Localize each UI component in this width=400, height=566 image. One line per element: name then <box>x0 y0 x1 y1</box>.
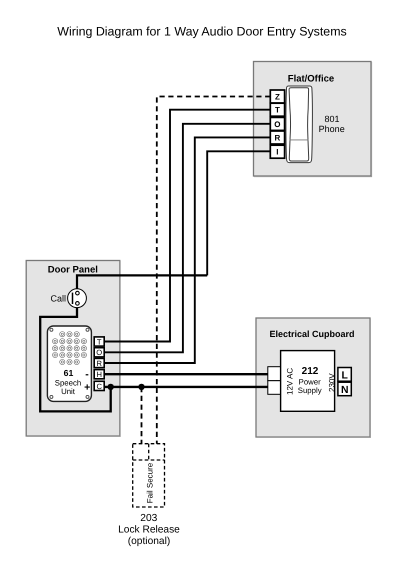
terminal T (door) <box>94 337 104 347</box>
svg-text:O: O <box>274 120 280 129</box>
wire H (door H to power supply) <box>104 373 268 375</box>
screw bottom-right <box>86 395 89 398</box>
svg-text:O: O <box>96 348 102 357</box>
screw top-right <box>86 328 89 331</box>
terminal N <box>338 382 351 396</box>
svg-text:T: T <box>275 106 280 115</box>
power supply input terminal 1 <box>268 367 281 381</box>
svg-text:H: H <box>96 370 101 379</box>
terminal T (flat) <box>270 103 284 116</box>
svg-text:T: T <box>97 337 102 346</box>
wire call button top (to wire I) <box>77 275 207 289</box>
Door Panel enclosure <box>26 261 120 437</box>
wire I (flat I terminal down to call button feed) <box>207 151 270 275</box>
phone 801 handset <box>286 86 313 163</box>
svg-text:Flat/Office: Flat/Office <box>288 74 334 85</box>
wire R (flat R to door R) <box>104 137 270 363</box>
wire call button bottom (to junction on wire C) <box>40 307 111 411</box>
svg-text:Supply: Supply <box>298 386 322 395</box>
terminal C (door) <box>94 381 104 391</box>
svg-text:Z: Z <box>275 93 280 102</box>
label 203 Lock Release (optional) <box>118 513 180 547</box>
terminal O (door) <box>94 348 104 358</box>
junction lock/C <box>138 384 144 390</box>
terminal Z <box>270 90 284 103</box>
label 61 Speech Unit <box>55 368 81 396</box>
svg-text:212: 212 <box>302 366 319 377</box>
svg-text:Wiring Diagram for 1 Way Audio: Wiring Diagram for 1 Way Audio Door Entr… <box>57 25 346 39</box>
svg-text:Door Panel: Door Panel <box>48 265 98 276</box>
svg-text:Unit: Unit <box>61 387 76 396</box>
svg-text:203: 203 <box>140 513 157 524</box>
svg-text:Phone: Phone <box>319 124 345 134</box>
power supply input terminal 2 <box>268 381 281 395</box>
terminal R (door) <box>94 358 104 368</box>
svg-text:Electrical Cupboard: Electrical Cupboard <box>269 329 354 339</box>
screw top-left <box>50 328 53 331</box>
power supply 212 <box>281 351 337 412</box>
lock release 203 (dashed outline) <box>133 444 165 507</box>
junction call/C <box>108 384 114 390</box>
svg-text:C: C <box>96 382 102 391</box>
wire Z (dashed, flat Z terminal to lock release) <box>157 97 270 444</box>
svg-text:(optional): (optional) <box>128 536 170 547</box>
terminal O (flat) <box>270 117 284 130</box>
speaker grille <box>53 332 87 365</box>
svg-text:L: L <box>342 371 349 382</box>
terminal L <box>338 368 351 382</box>
svg-text:R: R <box>275 134 281 143</box>
terminal I (flat) <box>270 145 284 158</box>
svg-text:230V: 230V <box>327 373 336 392</box>
svg-text:61: 61 <box>64 368 74 378</box>
Electrical Cupboard enclosure <box>256 318 370 437</box>
svg-text:Fail Secure: Fail Secure <box>145 462 154 503</box>
screw bottom-left <box>50 395 53 398</box>
wire T (flat T to door T) <box>104 110 270 342</box>
svg-text:Lock Release: Lock Release <box>118 524 180 535</box>
svg-text:N: N <box>341 385 349 396</box>
svg-text:R: R <box>96 359 102 368</box>
label 801 Phone <box>319 114 345 134</box>
svg-text:-: - <box>85 368 89 380</box>
terminal R (flat) <box>270 131 284 144</box>
wire O (flat O to door O) <box>104 124 270 352</box>
Flat/Office enclosure <box>254 62 372 177</box>
svg-text:12V AC: 12V AC <box>286 368 295 395</box>
svg-text:Call: Call <box>50 294 66 304</box>
wire C (door C to power supply) <box>104 386 268 388</box>
svg-text:+: + <box>84 381 90 393</box>
wire lock release (dashed, junction to lock release) <box>141 387 143 444</box>
call button S1 <box>68 289 87 308</box>
svg-text:801: 801 <box>324 114 339 124</box>
terminal H (door) <box>94 370 104 380</box>
speech unit 61 <box>47 326 91 401</box>
svg-text:I: I <box>276 148 278 157</box>
